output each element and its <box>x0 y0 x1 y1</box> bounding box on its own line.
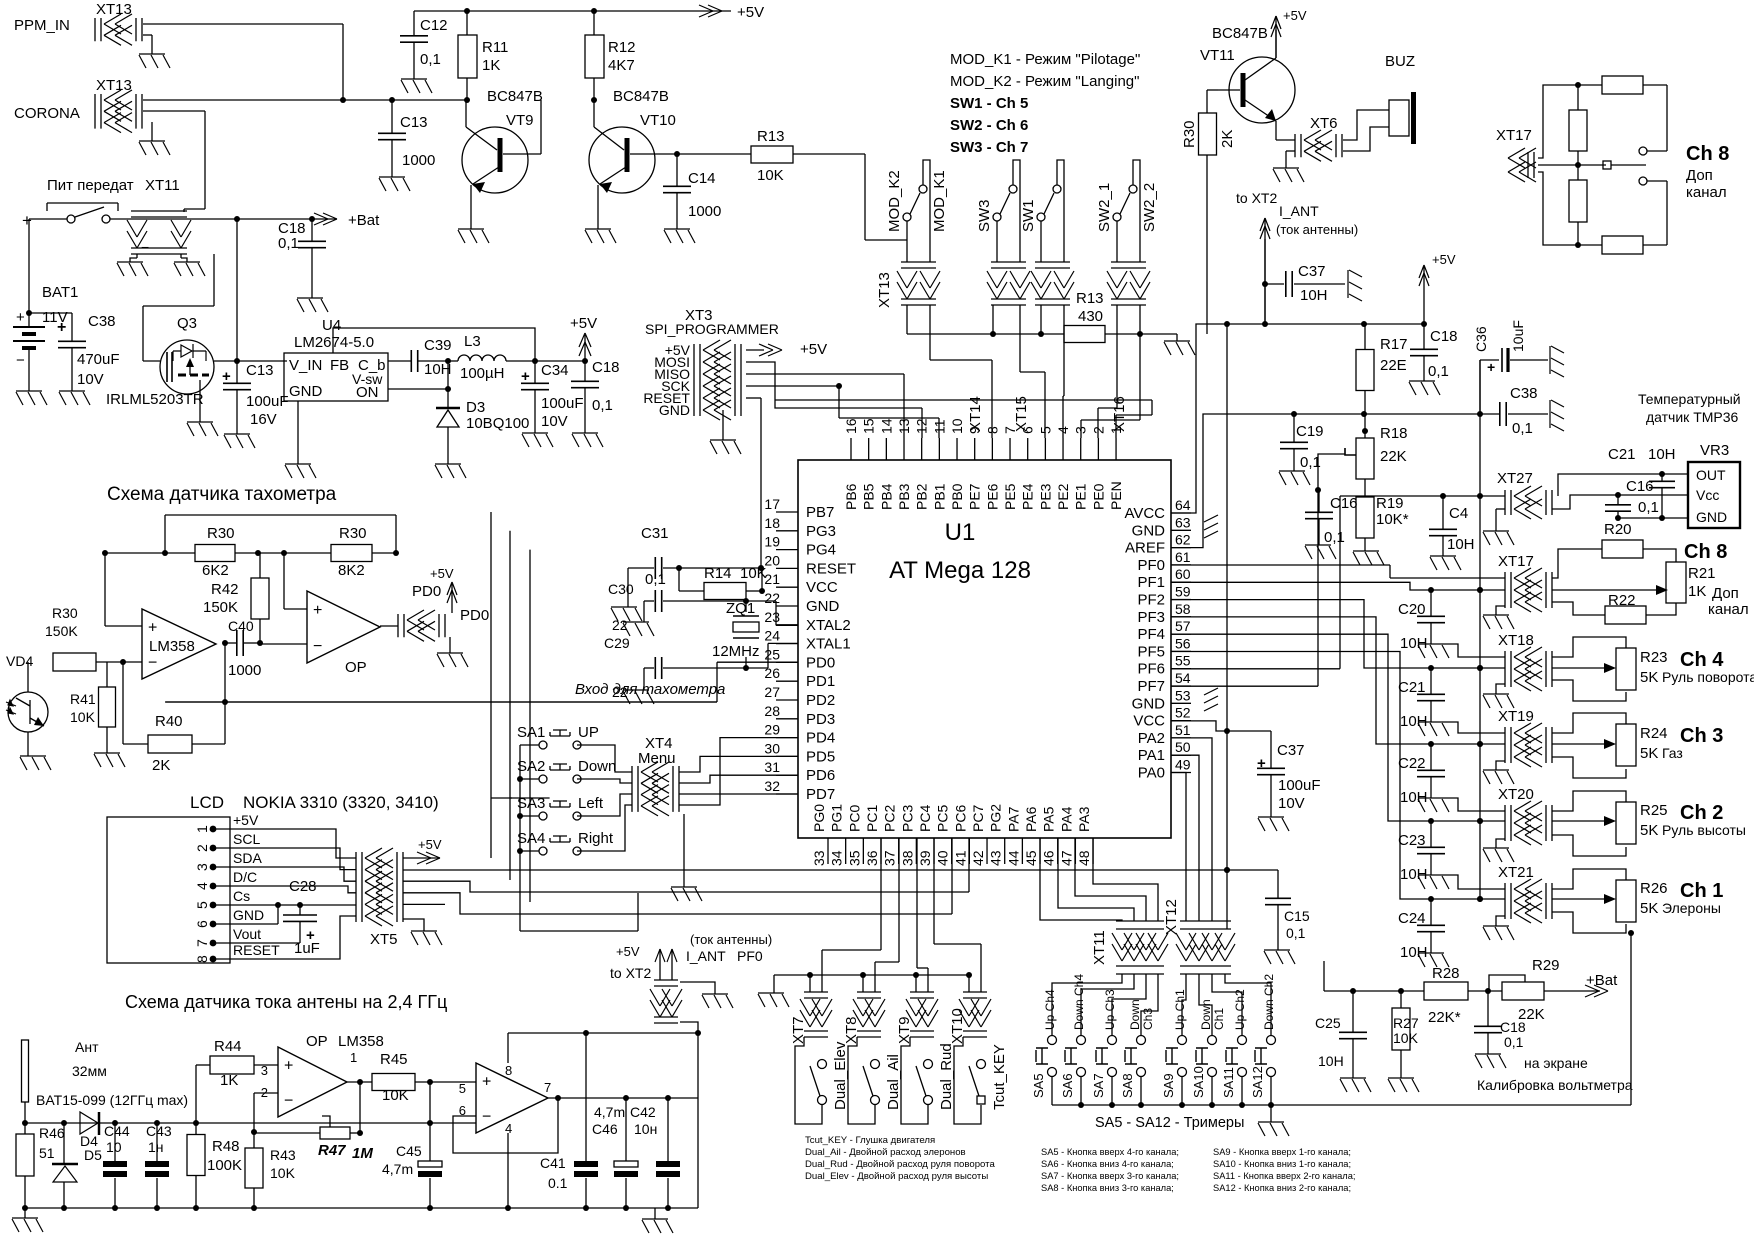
svg-text:C18: C18 <box>1430 328 1458 345</box>
microcontroller U1 AT Mega 128 <box>798 460 1171 838</box>
svg-text:BAT1: BAT1 <box>42 284 78 301</box>
svg-text:GND: GND <box>233 907 264 923</box>
ground rotated <box>1550 400 1564 431</box>
wire XT6 to ground <box>1286 150 1295 152</box>
svg-text:R28: R28 <box>1432 965 1460 982</box>
svg-text:C41: C41 <box>540 1155 566 1171</box>
resistor R13 10K <box>677 153 751 155</box>
svg-text:12MHz: 12MHz <box>712 643 760 660</box>
svg-text:21: 21 <box>764 571 780 587</box>
svg-text:PA4: PA4 <box>1058 806 1074 832</box>
svg-text:XT6: XT6 <box>1310 115 1338 132</box>
resistor mid top <box>1569 110 1587 151</box>
svg-text:R42: R42 <box>211 581 239 598</box>
svg-text:+: + <box>1487 359 1495 375</box>
ground <box>411 931 442 945</box>
ground <box>710 440 741 454</box>
svg-text:4,7m: 4,7m <box>594 1104 625 1120</box>
svg-text:D/C: D/C <box>233 869 257 885</box>
wire RESET to reset net <box>746 397 761 399</box>
svg-text:3: 3 <box>194 863 210 871</box>
pin 52 right <box>1171 720 1191 722</box>
svg-text:FB: FB <box>330 357 349 374</box>
svg-text:SA12: SA12 <box>1250 1066 1265 1098</box>
wire MISO to pin 13 <box>746 373 904 375</box>
pin 10 top <box>956 438 958 460</box>
svg-text:31: 31 <box>764 759 780 775</box>
ground <box>1264 950 1295 964</box>
svg-text:17: 17 <box>764 496 780 512</box>
wire pin61 corner to Ch8 top row <box>1390 577 1505 579</box>
svg-text:Up Ch2: Up Ch2 <box>1233 989 1247 1030</box>
svg-text:41: 41 <box>952 850 968 866</box>
svg-text:Схема датчика тахометра: Схема датчика тахометра <box>107 484 337 505</box>
svg-text:(ток антенны): (ток антенны) <box>690 932 772 947</box>
svg-text:PB6: PB6 <box>843 483 859 510</box>
svg-text:SA8: SA8 <box>1120 1073 1135 1098</box>
wire SA9 to connector <box>1182 974 1186 1035</box>
connector PD0 <box>398 614 445 637</box>
svg-text:0,1: 0,1 <box>1324 529 1345 546</box>
svg-text:0,1: 0,1 <box>278 235 299 252</box>
svg-text:PD7: PD7 <box>806 786 835 803</box>
svg-text:+: + <box>22 211 32 230</box>
ground <box>224 434 255 448</box>
switch top <box>1639 147 1647 155</box>
pin 24 left <box>776 643 798 645</box>
svg-text:C22: C22 <box>1398 755 1426 772</box>
svg-text:C39: C39 <box>424 337 452 354</box>
svg-text:+: + <box>482 1074 491 1091</box>
svg-text:R24: R24 <box>1640 725 1668 742</box>
diode D3 10BQ100 <box>437 410 459 427</box>
wire R18 tap <box>1318 454 1345 490</box>
svg-text:XT18: XT18 <box>1498 632 1534 649</box>
svg-text:C14: C14 <box>688 170 716 187</box>
svg-text:C25: C25 <box>1315 1015 1341 1031</box>
svg-text:100µH: 100µH <box>460 365 505 382</box>
svg-text:8: 8 <box>984 426 1000 434</box>
svg-text:+: + <box>16 309 25 326</box>
svg-text:PPM_IN: PPM_IN <box>14 17 70 34</box>
svg-text:XT5: XT5 <box>370 931 398 948</box>
power +Bat arrow <box>314 213 337 225</box>
svg-text:R47: R47 <box>318 1142 346 1159</box>
svg-text:C38: C38 <box>88 313 116 330</box>
svg-text:C21: C21 <box>1608 446 1636 463</box>
svg-text:PF5: PF5 <box>1137 643 1165 660</box>
svg-text:7: 7 <box>544 1080 551 1095</box>
svg-text:Ch 2: Ch 2 <box>1680 802 1723 824</box>
pin 54 right <box>1171 685 1191 687</box>
svg-text:63: 63 <box>1175 514 1191 530</box>
wire pin60 to Ch8 mid row <box>1171 582 1431 590</box>
pin 6 top <box>1027 438 1029 460</box>
svg-text:45: 45 <box>1023 850 1039 866</box>
svg-text:XT13: XT13 <box>96 1 132 18</box>
pin 53 right <box>1171 702 1191 704</box>
wire pin18 PG3 left <box>510 797 531 799</box>
svg-text:SW2 - Ch 6: SW2 - Ch 6 <box>950 117 1028 134</box>
pin 4 top <box>1062 438 1064 460</box>
svg-text:MOD_K2: MOD_K2 <box>886 170 903 232</box>
svg-text:10V: 10V <box>77 371 104 388</box>
wire R18 tap to pin 54 <box>1171 685 1318 687</box>
svg-text:10H: 10H <box>1648 446 1676 463</box>
svg-text:Ch 4: Ch 4 <box>1680 649 1724 671</box>
wires stage2 inputs <box>283 553 285 609</box>
svg-text:R30: R30 <box>1181 120 1198 148</box>
svg-text:AREF: AREF <box>1125 540 1165 557</box>
ground <box>611 607 642 621</box>
pin 1 top <box>1115 438 1117 460</box>
svg-text:32мм: 32мм <box>72 1063 107 1079</box>
svg-text:VT10: VT10 <box>640 112 676 129</box>
svg-text:SA6: SA6 <box>1060 1073 1075 1098</box>
svg-text:470uF: 470uF <box>77 351 120 368</box>
svg-text:PF6: PF6 <box>1137 661 1165 678</box>
svg-text:GND: GND <box>1696 509 1727 525</box>
wire SA7 to connector <box>1112 974 1146 1035</box>
svg-text:C43: C43 <box>146 1123 172 1139</box>
svg-text:0.1: 0.1 <box>548 1175 568 1191</box>
svg-text:0,1: 0,1 <box>1638 499 1659 516</box>
svg-text:1н: 1н <box>148 1139 164 1155</box>
svg-text:VCC: VCC <box>1133 713 1165 730</box>
svg-text:BC847B: BC847B <box>613 88 669 105</box>
ground <box>458 229 489 243</box>
svg-text:C44: C44 <box>104 1123 130 1139</box>
svg-text:PE5: PE5 <box>1002 483 1018 510</box>
svg-text:ON: ON <box>356 384 379 401</box>
svg-text:MOD_K1 - Режим "Pilotage": MOD_K1 - Режим "Pilotage" <box>950 51 1140 68</box>
resistor bottom <box>1578 244 1602 246</box>
wire AREF rail <box>1171 414 1498 548</box>
svg-text:SW3 - Ch 7: SW3 - Ch 7 <box>950 139 1028 156</box>
capacitor C38 470uF 10V <box>29 312 72 314</box>
ground <box>139 54 170 68</box>
ground <box>1483 531 1514 545</box>
svg-text:R40: R40 <box>155 713 183 730</box>
wire XT17 mid row <box>1431 589 1505 591</box>
wire stage1 output <box>222 640 228 646</box>
wire pin56 to Ch1 row <box>1171 652 1431 900</box>
svg-text:19: 19 <box>764 534 780 550</box>
ground <box>1430 556 1461 570</box>
svg-text:1000: 1000 <box>688 203 721 220</box>
pin 30 left <box>776 755 798 757</box>
svg-text:5: 5 <box>194 901 210 909</box>
slash gnd pin 63 <box>1204 515 1218 538</box>
ground <box>94 753 125 767</box>
capacitor C14 1000 <box>674 151 680 157</box>
wire XT5 Cs <box>403 903 445 905</box>
wire XT18 top row to ground hook <box>1444 644 1505 657</box>
svg-text:PB1: PB1 <box>931 483 947 510</box>
svg-text:R13: R13 <box>1076 290 1104 307</box>
svg-text:R44: R44 <box>214 1038 242 1055</box>
svg-text:R30: R30 <box>207 525 235 542</box>
ground <box>285 464 316 478</box>
svg-text:24: 24 <box>764 628 780 644</box>
svg-text:+: + <box>521 368 530 385</box>
svg-text:(ток антенны): (ток антенны) <box>1276 222 1358 237</box>
svg-text:10K: 10K <box>757 167 784 184</box>
svg-text:GND: GND <box>806 598 840 615</box>
svg-text:0,1: 0,1 <box>1512 420 1533 437</box>
svg-text:Up Ch3: Up Ch3 <box>1103 989 1117 1030</box>
ground <box>297 298 328 312</box>
wire XT9 signal to pin 38 <box>927 968 929 992</box>
pin 41 bottom <box>968 838 970 864</box>
pot R26 Ch 1 <box>1552 869 1626 889</box>
svg-text:6: 6 <box>194 920 210 928</box>
svg-text:54: 54 <box>1175 670 1191 686</box>
wire XT5 D/C long row to pin 40 <box>403 893 952 914</box>
svg-text:C21: C21 <box>1398 679 1426 696</box>
svg-text:PA3: PA3 <box>1076 806 1092 832</box>
svg-text:PC0: PC0 <box>846 805 862 832</box>
pin 42 bottom <box>986 838 988 864</box>
ground <box>174 262 205 276</box>
svg-text:10H: 10H <box>1447 536 1475 553</box>
svg-text:R21: R21 <box>1688 565 1716 582</box>
svg-text:PF7: PF7 <box>1137 678 1165 695</box>
ground <box>1418 875 1449 889</box>
svg-text:C34: C34 <box>541 362 569 379</box>
svg-text:CORONA: CORONA <box>14 105 80 122</box>
wire feedback top rail <box>165 514 396 516</box>
svg-text:10: 10 <box>106 1139 122 1155</box>
wire Q3 drain to V_IN <box>214 360 287 362</box>
pot R25 Ch 2 <box>1552 791 1626 811</box>
svg-text:64: 64 <box>1175 497 1191 513</box>
ground <box>1483 770 1514 784</box>
svg-text:I_ANT: I_ANT <box>686 948 726 964</box>
ground <box>1388 1078 1419 1092</box>
svg-text:1M: 1M <box>352 1145 373 1162</box>
svg-text:Элероны: Элероны <box>1662 900 1721 916</box>
svg-text:53: 53 <box>1175 687 1191 703</box>
wire SA8 to connector <box>1141 974 1158 1035</box>
svg-text:PC5: PC5 <box>935 805 951 832</box>
svg-text:XT21: XT21 <box>1498 864 1534 881</box>
power +5V rail top <box>414 10 731 12</box>
svg-text:Доп: Доп <box>1712 585 1739 602</box>
svg-text:3: 3 <box>1073 426 1089 434</box>
pin 17 left <box>776 511 798 513</box>
pin 3 top <box>1080 438 1082 460</box>
svg-text:49: 49 <box>1175 757 1191 773</box>
svg-text:GND: GND <box>289 383 323 400</box>
wire SA common left bus <box>520 744 539 746</box>
svg-text:Vcc: Vcc <box>1696 487 1719 503</box>
pin 28 left <box>776 718 798 720</box>
power +5V arrow right <box>1423 267 1425 324</box>
wire SA9 to ground rail <box>1181 1077 1183 1105</box>
wire +Bat rail <box>110 218 337 220</box>
svg-text:Right: Right <box>578 830 614 847</box>
svg-text:C18: C18 <box>592 359 620 376</box>
ground <box>1279 471 1310 485</box>
svg-text:PF1: PF1 <box>1137 574 1165 591</box>
svg-text:Доп: Доп <box>1686 167 1713 184</box>
svg-text:канал: канал <box>1686 184 1727 201</box>
svg-text:SW1 - Ch 5: SW1 - Ch 5 <box>950 95 1028 112</box>
svg-text:10K: 10K <box>1393 1030 1419 1046</box>
pin 19 left <box>776 549 798 551</box>
wire GND of XT3 <box>722 410 724 440</box>
ground <box>435 464 466 478</box>
svg-text:−: − <box>482 1109 491 1126</box>
svg-text:XT19: XT19 <box>1498 708 1534 725</box>
svg-text:VR3: VR3 <box>1700 442 1729 459</box>
svg-text:Down: Down <box>1199 999 1213 1030</box>
wire battery plus <box>28 219 30 313</box>
svg-text:I_ANT: I_ANT <box>1279 203 1319 219</box>
svg-text:4K7: 4K7 <box>608 57 635 74</box>
svg-text:62: 62 <box>1175 532 1191 548</box>
svg-text:C15: C15 <box>1284 908 1310 924</box>
wire pin19 PG4 left <box>530 797 550 799</box>
svg-text:10н: 10н <box>634 1121 657 1137</box>
wire pin 55 to XT27 row <box>1171 668 1340 670</box>
svg-text:U4: U4 <box>322 317 341 334</box>
svg-text:R18: R18 <box>1380 425 1408 442</box>
svg-text:PE6: PE6 <box>984 483 1000 510</box>
svg-text:1: 1 <box>194 825 210 833</box>
svg-text:100K: 100K <box>207 1157 242 1174</box>
wire VCC supply vertical <box>1226 324 1228 929</box>
wire AVCC rail <box>1171 324 1424 513</box>
pin 49 right <box>1171 772 1191 774</box>
wires chip pins 45-48 to XT11 <box>1040 838 1122 921</box>
svg-text:VT11: VT11 <box>1200 47 1235 64</box>
capacitor C13 1000 <box>391 100 393 133</box>
svg-text:LM358: LM358 <box>338 1033 384 1050</box>
pin 64 right <box>1171 512 1191 514</box>
wire top rail to XT2 <box>508 1032 698 1034</box>
svg-text:BC847B: BC847B <box>487 88 543 105</box>
svg-text:to XT2: to XT2 <box>610 965 651 981</box>
opamp OP stage2 <box>307 591 380 663</box>
svg-text:R48: R48 <box>212 1138 240 1155</box>
wire +input <box>104 553 106 626</box>
ground <box>522 433 553 447</box>
wire CORONA row1 long to VT9 base node <box>143 99 466 101</box>
svg-text:SW2_2: SW2_2 <box>1141 183 1158 232</box>
pin 13 top <box>903 438 905 460</box>
wire stage2 output to PD0 connector <box>380 625 398 627</box>
svg-text:C28: C28 <box>289 878 317 895</box>
svg-text:57: 57 <box>1175 618 1191 634</box>
pin 32 left <box>776 793 798 795</box>
wire I_ANT to AVCC rail <box>1264 239 1266 324</box>
wire XT20 ground <box>1496 839 1505 848</box>
ground <box>379 177 410 191</box>
wire XT21 top row to ground hook <box>1444 875 1505 889</box>
ground <box>758 993 789 1007</box>
svg-text:+: + <box>222 368 231 385</box>
svg-text:PE1: PE1 <box>1073 483 1089 510</box>
svg-text:C16: C16 <box>1626 478 1654 495</box>
wire PD0 connector ground <box>449 637 451 653</box>
capacitor C18 0.1 (at +Bat) <box>311 219 313 241</box>
svg-text:29: 29 <box>764 722 780 738</box>
svg-text:Tcut_KEY - Глушка двигателя: Tcut_KEY - Глушка двигателя <box>805 1135 935 1146</box>
wire U4 GND pin <box>297 401 299 464</box>
svg-text:SA12 - Кнопка вниз 2-го канала: SA12 - Кнопка вниз 2-го канала; <box>1213 1183 1351 1193</box>
wire XT20 mid row <box>1431 820 1505 822</box>
svg-text:PD6: PD6 <box>806 767 835 784</box>
svg-text:PF0: PF0 <box>1137 557 1165 574</box>
svg-text:Dual_Elev - Двойной расход рул: Dual_Elev - Двойной расход руля высоты <box>805 1171 988 1182</box>
svg-text:Газ: Газ <box>1662 745 1683 761</box>
pot R24 Ch 3 <box>1552 713 1626 733</box>
svg-text:OP: OP <box>306 1033 328 1050</box>
svg-text:VT9: VT9 <box>506 112 534 129</box>
svg-text:−: − <box>284 1093 293 1110</box>
svg-text:SA11: SA11 <box>1221 1067 1236 1098</box>
svg-text:R19: R19 <box>1376 495 1404 512</box>
svg-text:10: 10 <box>949 418 965 434</box>
pin 37 bottom <box>898 838 900 864</box>
svg-text:SA1: SA1 <box>517 724 545 741</box>
svg-text:D3: D3 <box>466 399 485 416</box>
svg-text:22: 22 <box>612 617 628 633</box>
svg-text:10K: 10K <box>740 565 767 582</box>
ground <box>1483 615 1514 629</box>
svg-text:+5V: +5V <box>233 812 259 828</box>
svg-text:Menu: Menu <box>638 750 676 767</box>
svg-text:Ch 8: Ch 8 <box>1686 143 1729 165</box>
wire bank to chip pins <box>929 305 931 360</box>
pin 23 left <box>776 624 798 626</box>
svg-text:4: 4 <box>194 882 210 890</box>
svg-text:C29: C29 <box>604 635 630 651</box>
svg-text:32: 32 <box>764 778 780 794</box>
svg-text:D5: D5 <box>84 1147 102 1163</box>
svg-text:16V: 16V <box>250 411 277 428</box>
svg-text:5K: 5K <box>1640 669 1658 686</box>
svg-text:PA0: PA0 <box>1138 765 1165 782</box>
wire SA5 to ground rail <box>1051 1077 1053 1105</box>
svg-text:SA5 - SA12 - Тримеры: SA5 - SA12 - Тримеры <box>1095 1115 1244 1131</box>
svg-text:MOD_K1: MOD_K1 <box>931 170 948 232</box>
svg-text:6: 6 <box>1020 426 1036 434</box>
switch bottom <box>1639 177 1647 185</box>
wire XT27 ground stub <box>1495 509 1497 531</box>
svg-text:PF3: PF3 <box>1137 609 1165 626</box>
pin 55 right <box>1171 668 1191 670</box>
pin 63 right <box>1171 529 1191 531</box>
svg-text:39: 39 <box>917 850 933 866</box>
svg-text:SW1: SW1 <box>1020 199 1037 232</box>
wire antenna signal row <box>25 1122 476 1124</box>
wires XT4 to chip pins 29-32 <box>679 756 798 772</box>
wire XT21 mid row <box>1431 898 1505 900</box>
svg-text:5K: 5K <box>1640 745 1658 762</box>
svg-text:61: 61 <box>1175 549 1191 565</box>
svg-text:R30: R30 <box>339 525 367 542</box>
svg-text:150K: 150K <box>45 623 78 639</box>
ground <box>437 653 468 667</box>
ground <box>702 994 733 1008</box>
pin 38 bottom <box>915 838 917 864</box>
svg-text:BC847B: BC847B <box>1212 25 1268 42</box>
pin 50 right <box>1171 754 1191 756</box>
svg-text:SA9 - Кнопка вверх 1-го канала: SA9 - Кнопка вверх 1-го канала; <box>1213 1147 1351 1157</box>
